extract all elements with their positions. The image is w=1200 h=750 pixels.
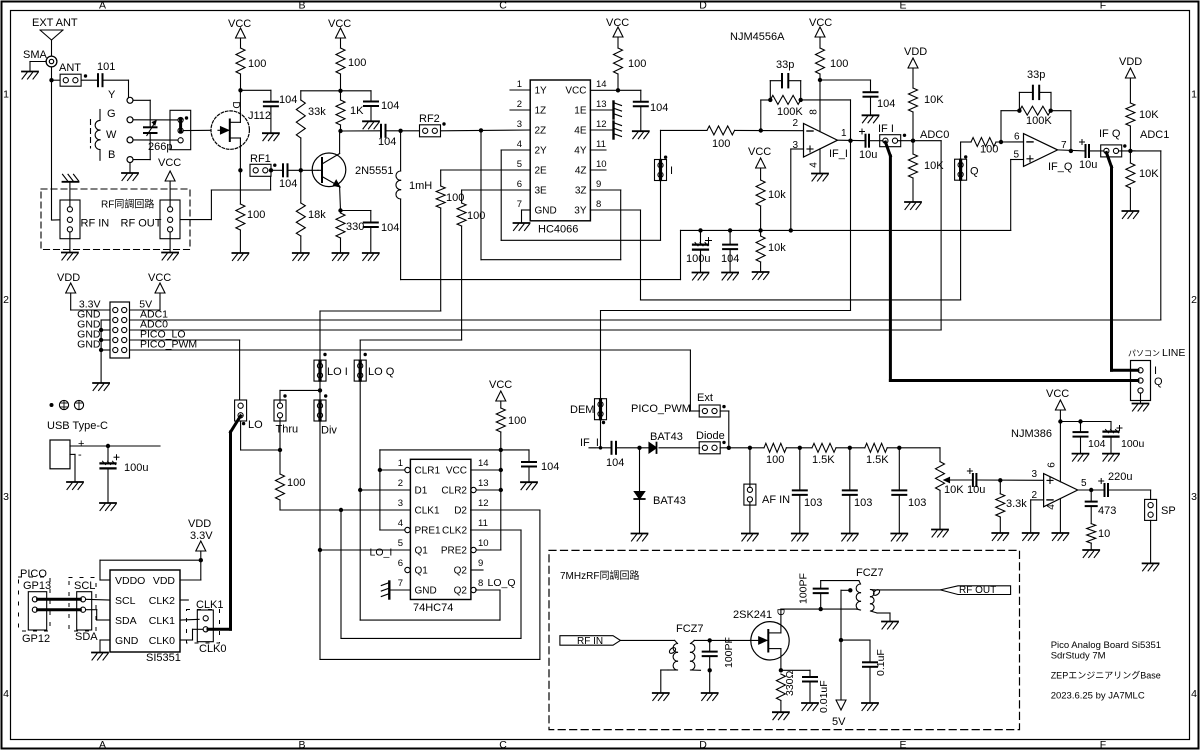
wire vcc node left 33k xyxy=(301,91,341,100)
wire collector to C104 xyxy=(341,130,382,132)
svg-text:104: 104 xyxy=(721,253,739,265)
svg-text:10K: 10K xyxy=(924,94,944,106)
svg-text:ADC1: ADC1 xyxy=(1140,129,1169,141)
ground 100u 386 xyxy=(1103,454,1119,462)
node gnd bus 3 xyxy=(99,348,103,352)
ground 3.3k xyxy=(992,533,1008,541)
label plus USB xyxy=(78,438,84,450)
wire T2 sec out xyxy=(875,589,941,591)
wire LO I down xyxy=(319,390,321,659)
svg-text:VCC: VCC xyxy=(148,272,171,284)
label 104 J112 xyxy=(279,94,297,106)
svg-text:33p: 33p xyxy=(776,59,794,71)
pin1 dot RF1 xyxy=(273,164,276,167)
svg-text:RF OUT: RF OUT xyxy=(121,218,162,230)
ground 386 pin2 xyxy=(1023,533,1039,541)
capacitor 104 J112 xyxy=(264,102,278,107)
label 0.01uF xyxy=(818,680,830,713)
svg-text:1E: 1E xyxy=(574,106,587,117)
IC U SI5351 box xyxy=(110,570,180,652)
wire 10u to ADC0 node xyxy=(869,140,913,142)
svg-text:D1: D1 xyxy=(415,486,428,497)
svg-text:13: 13 xyxy=(596,99,607,110)
ground HC4066 pin7 xyxy=(514,223,530,231)
svg-text:D2: D2 xyxy=(454,506,467,517)
connector J LINE xyxy=(1131,361,1151,401)
dashed box RF tuning xyxy=(41,189,190,250)
logo circle 1 xyxy=(59,400,68,409)
svg-text:A: A xyxy=(99,0,106,11)
ground 100u bias xyxy=(693,273,709,281)
label pin4 386 xyxy=(1046,504,1057,510)
column label D bottom xyxy=(699,739,707,750)
label 104 RF1 xyxy=(279,178,297,190)
node IF_Q output xyxy=(1069,149,1073,153)
svg-text:100PF: 100PF xyxy=(723,637,735,668)
svg-text:4: 4 xyxy=(809,162,820,168)
ground 0.1uF xyxy=(862,703,878,711)
svg-text:CLK2: CLK2 xyxy=(149,595,175,607)
label Diode xyxy=(696,430,725,442)
wire drain node to cap104 xyxy=(241,90,271,102)
wire SI GND xyxy=(100,640,110,652)
wire RF1 to C104 xyxy=(271,169,283,171)
svg-text:BAT43: BAT43 xyxy=(653,495,686,507)
VCC arrow 4556 xyxy=(815,27,825,48)
svg-text:3: 3 xyxy=(1191,491,1197,503)
svg-text:IF_I: IF_I xyxy=(829,148,848,160)
wire output IF_I xyxy=(838,139,867,142)
wire SMA to ground xyxy=(30,62,46,72)
wire 386 out xyxy=(1078,489,1104,491)
label CLK0 jumper xyxy=(199,643,227,655)
svg-text:5: 5 xyxy=(398,538,403,549)
svg-text:100u: 100u xyxy=(1121,438,1145,450)
label Thru xyxy=(276,424,299,436)
label pin5 386 xyxy=(1081,478,1087,489)
74HC74 pin labels xyxy=(415,466,468,597)
HC4066 pin5 wire xyxy=(441,170,531,186)
column label A top xyxy=(99,0,106,11)
jumper CLK1 CLK0 xyxy=(197,610,213,642)
label RF1 xyxy=(250,153,271,165)
VDD label si xyxy=(188,518,211,530)
pin1 dot I jumper xyxy=(664,156,667,159)
svg-text:Q1: Q1 xyxy=(415,546,429,557)
svg-text:2: 2 xyxy=(1191,294,1197,306)
label 100PF T1 xyxy=(723,637,735,668)
svg-text:6: 6 xyxy=(517,179,522,190)
label IF_I xyxy=(829,148,848,160)
svg-text:B: B xyxy=(298,0,305,11)
node 1mH top xyxy=(398,129,402,133)
node IF_I inv input xyxy=(759,128,763,132)
ground 4556 pin4 xyxy=(812,174,828,182)
ground cap104 HC4066 xyxy=(633,131,649,139)
svg-text:100: 100 xyxy=(248,58,266,70)
label 103 c xyxy=(908,497,926,509)
node J112 source xyxy=(238,168,242,172)
svg-text:7: 7 xyxy=(1061,140,1067,151)
ground 103 a xyxy=(792,534,808,542)
row label 2 right xyxy=(1191,294,1197,306)
node RF2 right xyxy=(479,128,483,132)
VDD arrow hdr xyxy=(66,283,110,310)
svg-text:9: 9 xyxy=(478,558,483,569)
svg-text:4: 4 xyxy=(398,518,403,529)
IC U 74HC74 box xyxy=(410,459,471,599)
wire cap104 hc gnd xyxy=(640,106,642,130)
svg-text:D: D xyxy=(699,0,707,11)
ground 103 b xyxy=(842,534,858,542)
wire 386 pin2 gnd xyxy=(1031,500,1044,533)
svg-text:10k: 10k xyxy=(768,242,786,254)
wire 220u to SP xyxy=(1108,490,1151,499)
svg-text:USB Type-C: USB Type-C xyxy=(47,420,108,432)
wire Thru to 100 xyxy=(279,450,281,474)
svg-text:C: C xyxy=(499,0,507,11)
svg-text:74HC74: 74HC74 xyxy=(413,602,453,614)
wire drain to T2 xyxy=(821,608,857,610)
pin1 dot Thru xyxy=(283,394,286,397)
label ADC1 xyxy=(1140,129,1169,141)
svg-text:100: 100 xyxy=(467,210,485,222)
capacitor 473 xyxy=(1086,490,1097,524)
svg-text:9: 9 xyxy=(596,179,601,190)
label IF_Q xyxy=(1048,161,1073,173)
label 101 xyxy=(97,61,115,73)
label 0.1uF xyxy=(875,649,887,676)
plus 10u I xyxy=(860,129,865,134)
column label F bottom xyxy=(1100,739,1106,750)
node LO I div xyxy=(318,388,322,392)
labels GND hdr xyxy=(77,309,101,351)
label LO xyxy=(248,419,263,431)
label 104 bias xyxy=(721,253,739,265)
resistor 18k xyxy=(296,203,305,253)
svg-text:10k: 10k xyxy=(768,189,786,201)
capacitor 104 2N5551 vcc xyxy=(364,102,378,107)
svg-text:8: 8 xyxy=(596,199,601,210)
node drain cap xyxy=(819,607,823,611)
wire LINE gnd xyxy=(1140,393,1142,403)
ground 103 c xyxy=(891,534,907,542)
label ADC0 xyxy=(920,129,949,141)
VCC arrow HC4066 xyxy=(613,27,623,48)
terminal Y xyxy=(127,97,133,103)
logo circle 2 xyxy=(74,400,83,409)
label RF OUT hdr xyxy=(121,218,162,230)
flag RF IN xyxy=(560,636,621,646)
column label E bottom xyxy=(899,739,906,750)
label ADC0 hdr xyxy=(140,319,168,331)
label 7MHzRF xyxy=(560,569,639,582)
label GP13 xyxy=(23,580,51,592)
node 5V 01uF xyxy=(839,638,843,642)
capacitor 0.01uF xyxy=(803,677,817,703)
IC U HC4066 box xyxy=(530,80,590,221)
ground T2 sec xyxy=(882,622,898,630)
wire RF1 loop to RFOUT xyxy=(181,176,271,219)
pin1 dot LO I xyxy=(323,353,326,356)
svg-text:6: 6 xyxy=(398,558,403,569)
thick wire IF Q to LINE I xyxy=(1106,153,1138,371)
column label F top xyxy=(1100,0,1106,11)
ground T1 prim xyxy=(653,693,669,701)
label AF IN xyxy=(762,494,790,506)
label B xyxy=(108,149,115,161)
svg-text:100: 100 xyxy=(628,58,646,70)
resistor 1.5K b xyxy=(865,443,887,452)
svg-text:SMA: SMA xyxy=(23,49,48,61)
svg-text:RF2: RF2 xyxy=(419,113,440,125)
label GP12 xyxy=(22,633,50,645)
VCC arrow bias xyxy=(756,158,766,180)
diode D BAT43 shunt xyxy=(634,448,644,499)
svg-text:I: I xyxy=(670,165,673,177)
wire ext ant to RF IN xyxy=(52,219,61,221)
jumper LO Q xyxy=(354,360,366,381)
pin1 dot LO xyxy=(242,422,245,425)
jumper Ext xyxy=(699,405,720,417)
svg-text:VDD: VDD xyxy=(1119,56,1142,68)
svg-text:IF_Q: IF_Q xyxy=(1048,161,1073,173)
SI CLK2 stub xyxy=(180,599,188,601)
arrow 5V xyxy=(836,700,846,710)
HC4066 pin7 gnd wire xyxy=(522,210,531,223)
svg-text:1K: 1K xyxy=(350,105,364,117)
svg-text:10K: 10K xyxy=(944,484,964,496)
wire C101 to Y xyxy=(103,80,129,97)
capacitor 10u af xyxy=(973,474,977,486)
wire RFIN top to gnd xyxy=(69,182,71,207)
svg-text:VDDO: VDDO xyxy=(115,575,145,587)
label 1.5K a xyxy=(812,454,835,466)
pin1 dot Q jumper xyxy=(964,155,967,158)
label pin6 386 xyxy=(1047,462,1058,468)
node ADC0 xyxy=(911,139,915,143)
node 4556 vcc xyxy=(818,78,822,82)
label RF doucho kairo xyxy=(101,198,154,211)
ground 100u USB xyxy=(100,503,116,511)
switch block G/W xyxy=(170,110,191,149)
ground USB minus xyxy=(67,482,83,490)
label ADC1 hdr xyxy=(140,309,168,321)
label 1mH xyxy=(409,180,432,192)
label 1K xyxy=(350,105,364,117)
capacitor 33p I xyxy=(782,74,788,87)
title line 3 xyxy=(1051,670,1161,681)
svg-text:18k: 18k xyxy=(308,209,326,221)
wire USB plus xyxy=(70,445,160,447)
pin1 dot RF2 xyxy=(442,122,445,125)
resistor 10k bias upper xyxy=(756,180,765,230)
svg-text:PRE1: PRE1 xyxy=(415,526,442,537)
ground RF OUT bottom xyxy=(162,253,178,261)
wire LO I top xyxy=(320,311,441,390)
svg-text:C: C xyxy=(499,739,507,750)
74HC74 pin9 stub xyxy=(471,569,483,571)
svg-text:CLR2: CLR2 xyxy=(441,486,467,497)
wire IF_I out to DEM xyxy=(601,141,851,448)
jumper LO I xyxy=(314,360,326,381)
label LINE xyxy=(1162,347,1185,359)
resistor 100 LO Q ctl xyxy=(457,203,466,340)
svg-text:10u: 10u xyxy=(1079,159,1097,171)
transformer T1 FCZ7 xyxy=(668,640,701,670)
wire 386 pin4 xyxy=(1059,499,1061,533)
svg-text:Q1: Q1 xyxy=(415,566,429,577)
svg-text:100: 100 xyxy=(287,477,305,489)
VDD label ADC1 xyxy=(1119,56,1142,68)
svg-text:10: 10 xyxy=(478,538,489,549)
wire pin11 CLK2 xyxy=(471,529,521,531)
svg-text:LINE: LINE xyxy=(1162,347,1185,359)
svg-text:G: G xyxy=(107,108,116,120)
plus 220u xyxy=(1099,479,1104,484)
column label C top xyxy=(499,0,507,11)
jumper IF I xyxy=(880,135,901,147)
node pin13 74 xyxy=(499,488,503,492)
wire T1 sec top xyxy=(694,639,750,641)
label 100u USB xyxy=(124,462,148,474)
svg-text:B: B xyxy=(298,739,305,750)
wire Q jumper vertical xyxy=(961,142,971,300)
wire pin5 bias xyxy=(1011,159,1024,161)
svg-text:330: 330 xyxy=(346,221,364,233)
VCC label 4556 xyxy=(809,17,832,29)
svg-text:FCZ7: FCZ7 xyxy=(856,567,884,579)
resistor 100 2N5551 xyxy=(336,48,345,91)
svg-text:3: 3 xyxy=(398,498,403,509)
svg-text:100: 100 xyxy=(247,209,265,221)
jumper I xyxy=(655,160,667,181)
label 100 IF_Q in xyxy=(980,144,998,156)
ground 10 xyxy=(1083,550,1099,558)
label pin3 386 xyxy=(1031,469,1037,480)
VCC label RFOUT xyxy=(158,157,181,169)
label 33p Q xyxy=(1027,69,1045,81)
svg-text:104: 104 xyxy=(1088,438,1106,450)
label 100 LO Q ctl xyxy=(467,210,485,222)
label SDA xyxy=(75,631,98,643)
resistor 10K ADC0 up xyxy=(909,88,918,141)
label pin2 xyxy=(792,118,798,129)
dashed box PICO xyxy=(19,577,51,631)
svg-text:103: 103 xyxy=(804,497,822,509)
potentiometer 10K xyxy=(936,448,945,529)
svg-text:B: B xyxy=(108,149,115,161)
label J112 xyxy=(248,110,271,122)
wire ANT to C101 xyxy=(81,79,98,81)
label 104 386 xyxy=(1088,438,1106,450)
ground pot xyxy=(932,530,948,538)
wire fb to output Q xyxy=(1051,111,1071,151)
label W xyxy=(106,129,117,141)
svg-text:100u: 100u xyxy=(686,253,710,265)
label 104 74 xyxy=(541,461,559,473)
svg-text:104: 104 xyxy=(381,222,399,234)
svg-text:VCC: VCC xyxy=(748,146,771,158)
svg-text:Q2: Q2 xyxy=(454,566,468,577)
label LO Q xyxy=(368,366,395,378)
node IF_I output xyxy=(848,139,852,143)
jumper Diode xyxy=(699,442,720,454)
ground SP xyxy=(1143,563,1159,571)
svg-text:4: 4 xyxy=(517,139,522,150)
svg-text:VCC: VCC xyxy=(446,466,467,477)
svg-text:NJM386: NJM386 xyxy=(1011,428,1052,440)
mount dot xyxy=(50,403,54,407)
label 100K Q xyxy=(1026,115,1052,127)
ground SI5351 xyxy=(92,653,108,661)
wire to ANT jumper xyxy=(52,79,61,81)
jumper DEM xyxy=(595,399,607,420)
node bias 10k xyxy=(758,228,762,232)
capacitor 104 74 xyxy=(522,462,536,467)
node pin14 74 xyxy=(499,468,503,472)
wire det out xyxy=(720,447,764,449)
svg-text:IF I: IF I xyxy=(878,123,894,135)
wire 4556 pin4 xyxy=(819,149,821,173)
svg-text:BAT43: BAT43 xyxy=(650,431,683,443)
svg-text:RF IN: RF IN xyxy=(81,218,110,230)
wire AF 2 xyxy=(836,447,865,449)
svg-text:AF IN: AF IN xyxy=(762,494,790,506)
jumper IF Q xyxy=(1101,145,1122,157)
label 10K ADC1 up xyxy=(1139,109,1159,121)
jumper LO xyxy=(235,400,247,421)
pot wiper xyxy=(944,478,973,483)
capacitor 104 coupling xyxy=(381,125,386,137)
resistor 330ohm xyxy=(776,674,785,712)
svg-text:-: - xyxy=(78,449,82,461)
jumper Div xyxy=(314,400,326,421)
label 3.3V si xyxy=(190,530,213,542)
svg-text:3: 3 xyxy=(3,491,9,503)
jumper Q xyxy=(955,159,967,180)
wire det cap to diode xyxy=(616,447,650,449)
svg-text:GND: GND xyxy=(415,586,437,597)
capacitor 104 bias xyxy=(723,230,737,272)
label 100 AF xyxy=(766,454,784,466)
svg-text:VCC: VCC xyxy=(228,18,251,30)
pin1 dot LO Q xyxy=(364,353,367,356)
svg-text:2: 2 xyxy=(792,118,798,129)
label 266p xyxy=(148,141,172,153)
svg-text:Thru: Thru xyxy=(276,424,299,436)
svg-text:220u: 220u xyxy=(1108,471,1132,483)
node gnd bus 1 xyxy=(99,328,103,332)
wire hdr gnd bus xyxy=(101,320,110,383)
label 100 2N5551 xyxy=(348,57,366,69)
label 104 2N5551 vcc xyxy=(381,100,399,112)
svg-text:D: D xyxy=(699,739,707,750)
wire ADC0 node right down xyxy=(913,141,941,330)
label 100u bias xyxy=(686,253,710,265)
wire D1 line xyxy=(360,489,410,491)
plus 100u 386 xyxy=(1117,426,1122,431)
svg-text:RF OUT: RF OUT xyxy=(959,585,996,596)
svg-text:F: F xyxy=(1100,739,1106,750)
node J112 drain xyxy=(238,88,242,92)
svg-text:100u: 100u xyxy=(124,462,148,474)
svg-text:104: 104 xyxy=(279,94,297,106)
wire 10u to 386 xyxy=(976,479,1043,481)
svg-text:4: 4 xyxy=(3,688,9,700)
node 2SK source xyxy=(779,668,783,672)
svg-text:VDD: VDD xyxy=(904,46,927,58)
